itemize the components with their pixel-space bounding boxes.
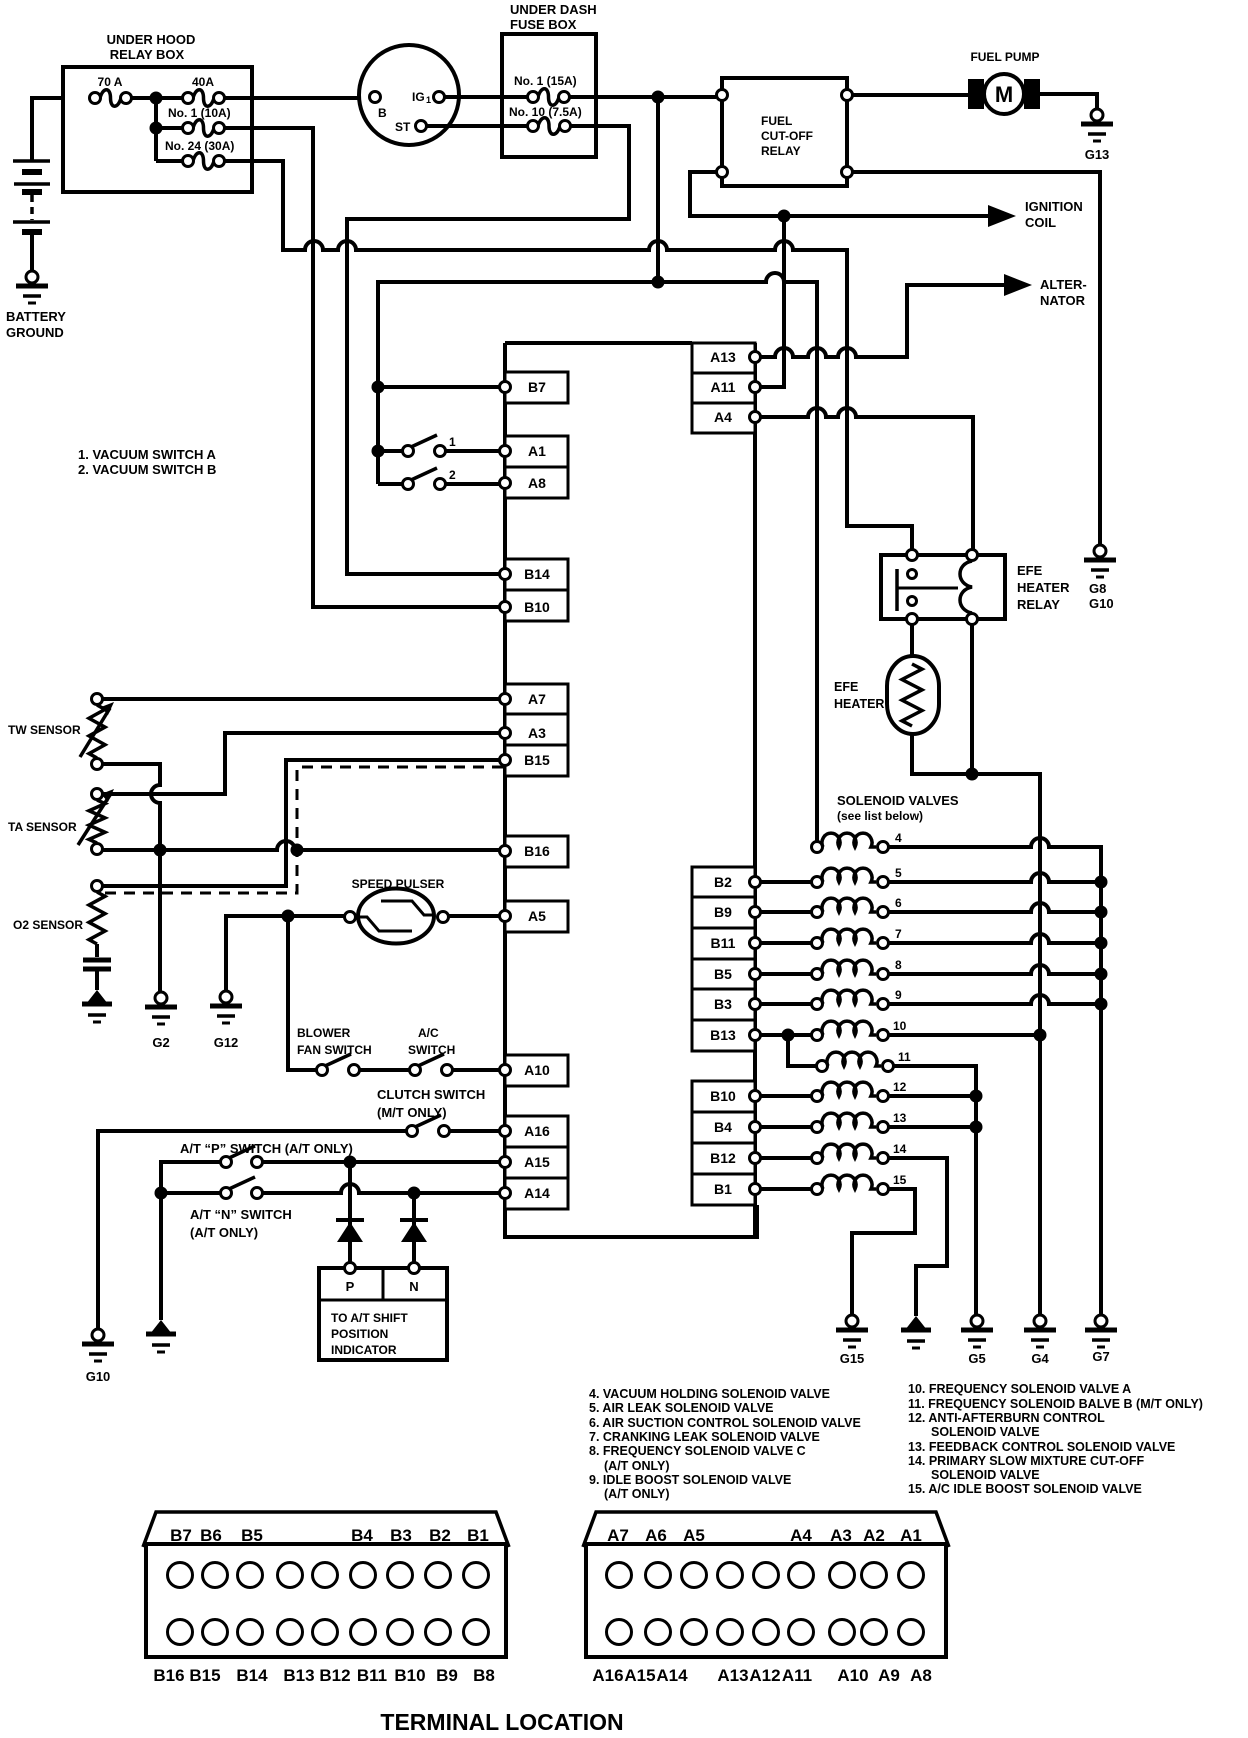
wire solenoid 5 to G7 bus (888, 873, 1101, 882)
svg-text:12. ANTI-AFTERBURN CONTROL: 12. ANTI-AFTERBURN CONTROL (908, 1411, 1105, 1425)
node terminal A10 (505, 1055, 568, 1086)
svg-text:14: 14 (893, 1142, 907, 1156)
wire A11 to ignition coil node (760, 216, 784, 387)
wire fuse 15A to fuel cut-off relay (569, 95, 716, 99)
fuse No. 1 (10A) (193, 120, 214, 137)
node terminal A15 (505, 1147, 568, 1178)
junction relay BR on heater return (966, 768, 979, 781)
svg-text:A10: A10 (837, 1666, 868, 1685)
wire EFE heater return to G4 bus (912, 734, 1040, 1315)
terminal relay TR (842, 90, 853, 101)
wire A/T P switch left leg (161, 1162, 221, 1320)
terminal EFE relay TR (967, 550, 978, 561)
svg-text:EFE: EFE (1017, 563, 1043, 578)
svg-text:(A/T ONLY): (A/T ONLY) (604, 1487, 670, 1501)
fuse No. 1 (15A) (538, 89, 559, 106)
svg-text:A3: A3 (528, 725, 546, 741)
svg-text:G4: G4 (1031, 1351, 1049, 1366)
svg-text:POSITION: POSITION (331, 1327, 388, 1341)
junction P/N left leg (155, 1187, 168, 1200)
svg-text:RELAY BOX: RELAY BOX (110, 47, 185, 62)
junction speed pulser node (282, 910, 295, 923)
svg-text:A16: A16 (524, 1123, 550, 1139)
svg-text:6. AIR SUCTION CONTROL SOLENOI: 6. AIR SUCTION CONTROL SOLENOID VALVE (589, 1416, 861, 1430)
svg-text:HEATER: HEATER (1017, 580, 1070, 595)
svg-text:TO A/T SHIFT: TO A/T SHIFT (331, 1311, 408, 1325)
wire relay BL to ignition coil (690, 172, 988, 216)
svg-text:11. FREQUENCY SOLENOID BALVE B: 11. FREQUENCY SOLENOID BALVE B (M/T ONLY… (908, 1397, 1203, 1411)
node terminal A1 (505, 436, 568, 467)
svg-text:A16: A16 (592, 1666, 623, 1685)
wire IG1 to fuse No.1(15A) (444, 95, 528, 99)
svg-text:G5: G5 (968, 1351, 985, 1366)
svg-text:13. FEEDBACK CONTROL SOLENOID: 13. FEEDBACK CONTROL SOLENOID VALVE (908, 1440, 1175, 1454)
solenoid valve 6 (812, 907, 823, 918)
svg-text:ST: ST (395, 120, 411, 134)
A/C switch contacts (410, 1065, 421, 1076)
svg-text:INDICATOR: INDICATOR (331, 1343, 397, 1357)
wire A/T P switch to A15 (262, 1160, 500, 1164)
svg-text:A7: A7 (607, 1526, 629, 1545)
svg-text:B8: B8 (473, 1666, 495, 1685)
junction solenoid 11 tap (782, 1029, 795, 1042)
svg-text:2: 2 (449, 468, 456, 482)
svg-text:A10: A10 (524, 1062, 550, 1078)
svg-text:M: M (995, 82, 1013, 107)
svg-text:B5: B5 (241, 1526, 263, 1545)
solenoid valve 15 (812, 1184, 823, 1195)
EFE relay internals (908, 570, 917, 579)
junction solenoid 8 on G7 bus (1095, 968, 1108, 981)
svg-text:TW SENSOR: TW SENSOR (8, 723, 81, 737)
svg-text:7: 7 (895, 927, 902, 941)
wire B5 to solenoid 8 (760, 972, 812, 976)
sensor TA (92, 789, 103, 800)
junction main feed (150, 92, 163, 105)
svg-text:B12: B12 (710, 1150, 736, 1166)
svg-text:G10: G10 (86, 1369, 111, 1384)
solenoid valve 13 (812, 1122, 823, 1133)
wire B13 to solenoid 10 (760, 1033, 812, 1037)
svg-text:CLUTCH SWITCH: CLUTCH SWITCH (377, 1087, 485, 1102)
wire TW sensor low side to G2 bus (102, 764, 160, 992)
wire solenoid 4 to G7 bus (888, 838, 1101, 1315)
svg-text:O2 SENSOR: O2 SENSOR (13, 918, 83, 932)
under hood relay box outline (63, 67, 252, 192)
wire B15 to O2 sensor (102, 760, 500, 886)
svg-text:B7: B7 (528, 379, 546, 395)
solenoid valve 14 (812, 1153, 823, 1164)
solenoid valve 7 (812, 938, 823, 949)
junction N diode tap (408, 1187, 421, 1200)
svg-text:8. FREQUENCY SOLENOID VALVE C: 8. FREQUENCY SOLENOID VALVE C (589, 1444, 806, 1458)
svg-text:BLOWER: BLOWER (297, 1026, 351, 1040)
ground G12 (210, 1004, 242, 1009)
svg-text:B4: B4 (351, 1526, 373, 1545)
wire relay to fuel pump (853, 93, 968, 97)
svg-text:A6: A6 (645, 1526, 667, 1545)
svg-text:B3: B3 (390, 1526, 412, 1545)
wire EFE relay BL to heater (910, 625, 914, 658)
svg-text:A8: A8 (910, 1666, 932, 1685)
svg-text:13: 13 (893, 1111, 907, 1125)
terminal EFE relay BR (967, 614, 978, 625)
svg-text:B4: B4 (714, 1119, 732, 1135)
svg-text:A4: A4 (790, 1526, 812, 1545)
svg-text:B15: B15 (524, 752, 550, 768)
node terminal B9 right column (692, 897, 755, 928)
svg-text:(M/T ONLY): (M/T ONLY) (377, 1105, 447, 1120)
svg-text:No. 1 (10A): No. 1 (10A) (168, 106, 231, 120)
blower fan switch contacts (317, 1065, 328, 1076)
wire fuel pump to G13 (1040, 94, 1097, 109)
fuse 70A (100, 90, 121, 107)
junction solenoid 5 on G7 bus (1095, 876, 1108, 889)
svg-text:G13: G13 (1085, 147, 1110, 162)
shield dashed line (100, 767, 503, 893)
fuse No. 24 (30A) (193, 153, 214, 170)
svg-text:FUEL: FUEL (761, 114, 792, 128)
wire B1 to solenoid 15 (760, 1187, 812, 1191)
svg-text:10: 10 (893, 1019, 907, 1033)
wire A4 to EFE relay (760, 408, 973, 549)
svg-text:70 A: 70 A (98, 75, 123, 89)
svg-text:5: 5 (895, 866, 902, 880)
A/T P switch contacts (221, 1157, 232, 1168)
junction No.1 fuse feed (150, 122, 163, 135)
node terminal B14 (505, 559, 568, 590)
arrow to alternator (1004, 274, 1032, 296)
terminal relay BR (842, 167, 853, 178)
svg-text:B1: B1 (714, 1181, 732, 1197)
svg-text:A5: A5 (683, 1526, 705, 1545)
wire B7 tap (378, 385, 500, 389)
svg-text:G10: G10 (1089, 596, 1114, 611)
svg-text:B11: B11 (711, 935, 736, 951)
junction ignition coil wire (778, 210, 791, 223)
junction shield tap (291, 844, 304, 857)
svg-text:1. VACUUM SWITCH A: 1. VACUUM SWITCH A (78, 447, 217, 462)
svg-text:2. VACUUM SWITCH B: 2. VACUUM SWITCH B (78, 462, 216, 477)
svg-text:P: P (346, 1279, 355, 1294)
svg-text:A13: A13 (710, 349, 736, 365)
wire to vacuum switch 2 (378, 482, 403, 486)
A/T shift position indicator box (319, 1268, 447, 1360)
svg-text:15: 15 (893, 1173, 907, 1187)
svg-text:1: 1 (449, 435, 456, 449)
svg-text:B5: B5 (714, 966, 732, 982)
wire vacuum switch 1 to A1 (445, 449, 500, 453)
svg-text:12: 12 (893, 1080, 907, 1094)
svg-text:B14: B14 (236, 1666, 268, 1685)
svg-text:B1: B1 (467, 1526, 489, 1545)
wire solenoid 11 to G5 bus (893, 1066, 976, 1315)
svg-text:B13: B13 (283, 1666, 314, 1685)
ground A/T switch ground (150, 1320, 172, 1334)
svg-text:SOLENOID VALVE: SOLENOID VALVE (931, 1468, 1040, 1482)
wire A13 to alternator (760, 285, 1004, 357)
svg-text:B14: B14 (524, 566, 550, 582)
svg-text:7. CRANKING LEAK SOLENOID VALV: 7. CRANKING LEAK SOLENOID VALVE (589, 1430, 820, 1444)
node terminal B2 right column (692, 867, 755, 897)
svg-text:FUEL PUMP: FUEL PUMP (970, 50, 1039, 64)
svg-text:A15: A15 (624, 1666, 655, 1685)
ground O2 sensor ground (86, 990, 108, 1004)
svg-text:6: 6 (895, 896, 902, 910)
wire B16 to TA sensor (102, 841, 500, 850)
terminal N (409, 1263, 420, 1274)
svg-text:A15: A15 (524, 1154, 550, 1170)
ground G5 (961, 1328, 993, 1333)
svg-text:B16: B16 (153, 1666, 184, 1685)
svg-text:B11: B11 (357, 1666, 387, 1685)
svg-text:G12: G12 (214, 1035, 239, 1050)
wire IG feed drop (656, 97, 660, 282)
ground G8 G10 (1084, 558, 1116, 563)
svg-text:B: B (378, 106, 387, 120)
svg-text:B10: B10 (710, 1088, 736, 1104)
svg-text:N: N (409, 1279, 418, 1294)
svg-text:NATOR: NATOR (1040, 293, 1086, 308)
wire node to blower fan switch (288, 916, 316, 1070)
svg-text:IGNITION: IGNITION (1025, 199, 1083, 214)
svg-text:A8: A8 (528, 475, 546, 491)
battery B1 positive feed wire (32, 98, 90, 161)
svg-text:ALTER-: ALTER- (1040, 277, 1087, 292)
node ECU outline (505, 343, 757, 1237)
wire B13 tap to solenoid 11 (788, 1035, 816, 1066)
svg-text:TA SENSOR: TA SENSOR (8, 820, 77, 834)
svg-text:G8: G8 (1089, 581, 1106, 596)
solenoid valve 4 (812, 842, 823, 853)
svg-text:B10: B10 (394, 1666, 425, 1685)
wire G12 to speed pulser node (226, 916, 288, 991)
svg-text:A14: A14 (656, 1666, 688, 1685)
ground battery ground symbol (16, 284, 48, 289)
svg-text:FAN SWITCH: FAN SWITCH (297, 1043, 372, 1057)
svg-text:B13: B13 (710, 1027, 736, 1043)
svg-text:FUSE BOX: FUSE BOX (510, 17, 577, 32)
terminal relay TL (717, 90, 728, 101)
svg-text:40A: 40A (192, 75, 214, 89)
svg-text:RELAY: RELAY (761, 144, 801, 158)
svg-text:No. 24 (30A): No. 24 (30A) (165, 139, 234, 153)
wire solenoid 12 to G5 bus (888, 1094, 976, 1098)
svg-text:IG: IG (412, 90, 425, 104)
ground G10 (82, 1342, 114, 1347)
wire TW sensor to A7 (102, 697, 500, 701)
wire ST to fuse No.10 (426, 124, 528, 128)
wire junction down to No.1/No.24 fuses (154, 98, 158, 161)
svg-text:UNDER HOOD: UNDER HOOD (107, 32, 196, 47)
svg-text:SPEED PULSER: SPEED PULSER (352, 877, 445, 891)
svg-text:No. 10 (7.5A): No. 10 (7.5A) (509, 105, 582, 119)
junction IG feed (652, 91, 665, 104)
sensor O2 (92, 881, 103, 892)
solenoid valve 9 (812, 999, 823, 1010)
node terminal A4 right column (692, 403, 755, 433)
under dash fuse box outline (502, 34, 596, 157)
svg-text:A9: A9 (878, 1666, 900, 1685)
wire clutch switch to A16 (450, 1129, 500, 1133)
node terminal B5 right column (692, 959, 755, 989)
wire A/T N switch left leg (161, 1191, 221, 1195)
solenoid valve 8 (812, 969, 823, 980)
node terminal A13 right column (692, 343, 755, 373)
junction solenoid 10 on G4 bus (1034, 1029, 1047, 1042)
wire A/T N switch to A14 (262, 1184, 500, 1193)
svg-text:A1: A1 (528, 443, 546, 459)
wire clutch switch to G10 (98, 1131, 406, 1329)
node terminal B10 (505, 590, 568, 621)
terminal P (345, 1263, 356, 1274)
svg-text:A4: A4 (714, 409, 732, 425)
sensor TW (92, 694, 103, 705)
wire TA sensor to A3 (102, 733, 500, 794)
svg-text:A13: A13 (717, 1666, 748, 1685)
wire N diode leg (412, 1193, 416, 1264)
svg-text:A/T “P” SWITCH (A/T ONLY): A/T “P” SWITCH (A/T ONLY) (180, 1141, 353, 1156)
svg-text:B10: B10 (524, 599, 550, 615)
svg-text:B9: B9 (714, 904, 732, 920)
node terminal A3 (505, 714, 568, 745)
ground G7 (1085, 1328, 1117, 1333)
svg-text:COIL: COIL (1025, 215, 1056, 230)
svg-text:(A/T ONLY): (A/T ONLY) (190, 1225, 258, 1240)
connector A terminal block (586, 1544, 946, 1657)
wire solenoid 15 to G15 (852, 1189, 915, 1315)
relay EFE heater box (881, 555, 1005, 619)
wire relay BR to G8/G10 (853, 172, 1100, 545)
fuse No. 10 (7.5A) (538, 118, 560, 135)
wire IG bus to vacuum switches and solenoid 4 (378, 273, 817, 841)
svg-text:11: 11 (898, 1050, 911, 1064)
svg-text:G15: G15 (840, 1351, 865, 1366)
junction solenoid 12 on G5 bus (970, 1090, 983, 1103)
terminal EFE relay BL (907, 614, 918, 625)
svg-text:9. IDLE BOOST SOLENOID VALVE: 9. IDLE BOOST SOLENOID VALVE (589, 1473, 791, 1487)
clutch switch contacts (407, 1126, 418, 1137)
diode P (336, 1218, 364, 1222)
svg-text:A14: A14 (524, 1185, 550, 1201)
wire speed pulser to A5 (448, 914, 500, 918)
ground solenoid 14 ground (905, 1316, 927, 1330)
svg-text:A12: A12 (749, 1666, 780, 1685)
svg-text:A/C: A/C (418, 1026, 439, 1040)
svg-text:A3: A3 (830, 1526, 852, 1545)
solenoid valve 5 (812, 877, 823, 888)
svg-text:10. FREQUENCY SOLENOID VALVE A: 10. FREQUENCY SOLENOID VALVE A (908, 1382, 1131, 1396)
junction vacuum switch 1 tap (372, 445, 385, 458)
solenoid valve 12 (812, 1091, 823, 1102)
wire solenoid 10 to G4 bus (888, 1033, 1040, 1037)
node terminal B3 right column (692, 989, 755, 1020)
svg-text:G2: G2 (152, 1035, 169, 1050)
wire vacuum switch 2 to A8 (445, 482, 500, 486)
svg-text:(see list below): (see list below) (837, 809, 923, 823)
wire to vacuum switch 1 (378, 449, 403, 453)
solenoid valve 11 (817, 1061, 828, 1072)
node terminal B15 (505, 745, 568, 776)
relay fuel cut-off box (722, 78, 847, 186)
ground G15 (836, 1328, 868, 1333)
node terminal B1 right column (692, 1174, 755, 1205)
A/T N switch contacts (221, 1188, 232, 1199)
svg-text:No. 1 (15A): No. 1 (15A) (514, 74, 577, 88)
svg-text:CUT-OFF: CUT-OFF (761, 129, 813, 143)
svg-text:B9: B9 (436, 1666, 458, 1685)
svg-text:B2: B2 (429, 1526, 451, 1545)
svg-text:14. PRIMARY SLOW MIXTURE CUT-O: 14. PRIMARY SLOW MIXTURE CUT-OFF (908, 1454, 1144, 1468)
svg-text:SOLENOID VALVE: SOLENOID VALVE (931, 1425, 1040, 1439)
wire EFE relay BR down (970, 625, 974, 774)
node terminal B7 (505, 372, 568, 403)
wire B9 to solenoid 6 (760, 910, 812, 914)
svg-text:UNDER DASH: UNDER DASH (510, 2, 597, 17)
wire A/C switch to A10 (453, 1068, 500, 1072)
wire solenoid 8 to G7 bus (888, 965, 1101, 974)
wire 70A to 40A (131, 96, 183, 100)
junction P diode tap (344, 1156, 357, 1169)
terminal EFE relay TL (907, 550, 918, 561)
wire blower to A/C switch (360, 1068, 410, 1072)
svg-text:A11: A11 (782, 1666, 812, 1685)
svg-text:B15: B15 (189, 1666, 220, 1685)
wire No.24 fuse to EFE heater relay (224, 161, 912, 549)
node terminal B12 right column (692, 1143, 755, 1174)
wire solenoid 14 to ground (888, 1158, 947, 1316)
junction solenoid 7 on G7 bus (1095, 937, 1108, 950)
motor fuel pump (968, 79, 984, 109)
node terminal B16 (505, 836, 568, 867)
ground G13 (1081, 122, 1113, 127)
junction TW/G2 on B16 wire (154, 844, 167, 857)
wire B3 to solenoid 9 (760, 1002, 812, 1006)
svg-text:B16: B16 (524, 843, 550, 859)
svg-text:(A/T ONLY): (A/T ONLY) (604, 1459, 670, 1473)
svg-text:BATTERY: BATTERY (6, 309, 66, 324)
wire solenoid 7 to G7 bus (888, 934, 1101, 943)
junction IG feed to ECU bus (652, 276, 665, 289)
svg-text:A11: A11 (711, 379, 736, 395)
svg-text:4: 4 (895, 831, 902, 845)
junction solenoid 6 on G7 bus (1095, 906, 1108, 919)
svg-text:G7: G7 (1092, 1349, 1109, 1364)
wire to No.24 fuse (156, 159, 183, 163)
terminal relay BL (717, 167, 728, 178)
speed pulser (358, 889, 434, 944)
solenoid valve 10 (812, 1030, 823, 1041)
EFE heater (887, 656, 939, 734)
node terminal B4 right column (692, 1112, 755, 1143)
svg-text:9: 9 (895, 988, 902, 1002)
fuse 40A (193, 90, 214, 107)
node terminal A16 (505, 1116, 568, 1147)
svg-text:5. AIR LEAK SOLENOID VALVE: 5. AIR LEAK SOLENOID VALVE (589, 1401, 774, 1415)
vacuum switch B contacts (403, 479, 414, 490)
svg-text:A2: A2 (863, 1526, 885, 1545)
svg-text:A1: A1 (900, 1526, 922, 1545)
wire solenoid 6 to G7 bus (888, 903, 1101, 912)
svg-text:A7: A7 (528, 691, 546, 707)
node terminal A8 (505, 467, 568, 498)
node terminal B13 right column (692, 1020, 755, 1051)
wire ST fuse to B14 (347, 126, 629, 574)
svg-text:A5: A5 (528, 908, 546, 924)
vacuum switch A contacts (403, 446, 414, 457)
junction solenoid 9 on G7 bus (1095, 998, 1108, 1011)
svg-text:SWITCH: SWITCH (408, 1043, 455, 1057)
